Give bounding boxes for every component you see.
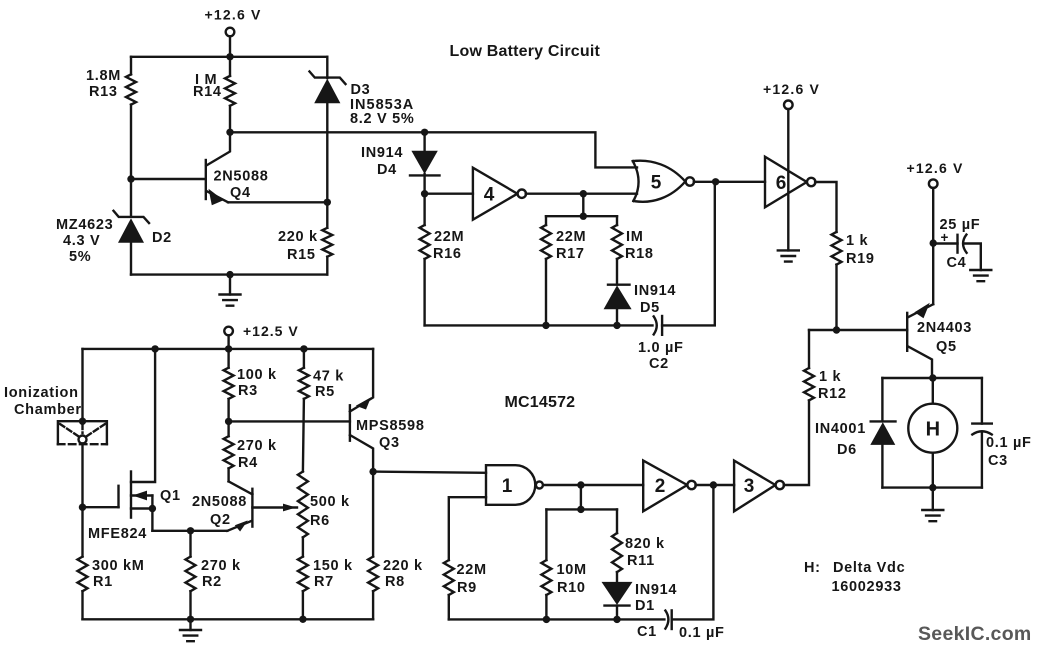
node: rail junction R5 (300, 345, 307, 352)
mosfet Q1 MFE824 (83, 506, 119, 508)
resistor R3 100k (227, 349, 229, 422)
svg-text:22M: 22M (556, 229, 586, 245)
wire: gate6 output to R19 (815, 182, 836, 232)
svg-text:270 k: 270 k (201, 558, 241, 574)
svg-text:Q3: Q3 (379, 435, 400, 451)
svg-text:Delta Vdc: Delta Vdc (833, 560, 905, 576)
ground (gate 6) (778, 250, 799, 261)
svg-text:3: 3 (744, 476, 755, 497)
transistor Q2 2N5088 (251, 489, 253, 527)
capacitor C3 0.1uF (981, 378, 983, 424)
node: R14/collector junction (226, 129, 233, 136)
svg-text:R4: R4 (238, 455, 258, 471)
svg-text:1: 1 (502, 476, 513, 497)
resistor R2 270k (189, 531, 191, 620)
node: Q3 collector junction (369, 468, 376, 475)
wire: R10-R11 tee (546, 508, 617, 510)
wire: branch down (582, 194, 584, 217)
wire: chamber to gate node (81, 444, 83, 508)
wire: bottom rail of Q4 block (131, 273, 327, 275)
svg-text:4: 4 (484, 185, 495, 206)
node: rail junction Q1 drain (151, 345, 158, 352)
node: R2 ground junction (187, 616, 194, 623)
wire: left rail x=131 (130, 57, 132, 217)
inverter U3 (gate 3) (734, 461, 775, 512)
resistor R11 820k (616, 509, 618, 582)
zener diode D2 MZ4623 (130, 223, 132, 275)
node: C1 feedback junction (710, 481, 717, 488)
node: H-box bottom junction (929, 484, 936, 491)
resistor R16 22M (423, 194, 425, 326)
capacitor C1 0.1uF (665, 611, 668, 629)
wire: rail down to chamber (81, 349, 83, 421)
NOR gate U5 (gate 5) (633, 161, 639, 201)
wire: H-box top rail (882, 377, 982, 379)
node: chamber/R1/gate junction (79, 504, 86, 511)
svg-text:10M: 10M (557, 562, 587, 578)
resistor R10 10M (545, 509, 547, 619)
node: emitter/D3/R15 junction (324, 199, 331, 206)
node: D1 bottom junction (613, 616, 620, 623)
svg-text:+12.6 V: +12.6 V (763, 81, 820, 97)
svg-text:R11: R11 (627, 553, 655, 569)
node: Q5 collector junction (929, 374, 936, 381)
node: R7 ground junction (299, 616, 306, 623)
node: D4 top junction (421, 129, 428, 136)
resistor R5 47k (303, 349, 304, 472)
node: top rail junction (226, 53, 233, 60)
svg-text:2N4403: 2N4403 (917, 320, 972, 336)
svg-text:100 k: 100 k (237, 367, 277, 383)
svg-text:C1: C1 (637, 624, 657, 640)
svg-text:R1: R1 (93, 574, 113, 590)
diode D1 IN914 (602, 582, 633, 605)
wire: C2 bottom rail (425, 324, 653, 326)
svg-text:R15: R15 (287, 247, 316, 263)
svg-text:Q2: Q2 (210, 512, 231, 528)
svg-text:+12.6 V: +12.6 V (907, 160, 964, 176)
node: R17 branch junction (580, 190, 587, 197)
resistor R4 270k (227, 421, 229, 481)
inverter U2 (gate 2) (643, 461, 687, 512)
svg-text:R17: R17 (556, 246, 585, 262)
wire: branch down to R10/R11 tee (580, 485, 582, 509)
svg-text:2: 2 (655, 476, 666, 497)
svg-text:R9: R9 (457, 580, 477, 596)
svg-text:D3: D3 (351, 82, 371, 98)
resistor R9 22M (444, 560, 454, 595)
wire: H-box left side (881, 378, 883, 488)
svg-text:220 k: 220 k (278, 229, 318, 245)
svg-text:D1: D1 (635, 598, 655, 614)
svg-text:1.8M: 1.8M (86, 68, 121, 84)
meter H (delta Vdc indicator) (932, 378, 934, 404)
wire: gate1 output to gate2 (544, 484, 644, 486)
wire: gate2 output to gate3 (696, 484, 735, 486)
transistor Q4 2N5088 (205, 160, 207, 199)
resistor R12 1k (804, 368, 814, 400)
svg-text:0.1 µF: 0.1 µF (679, 625, 725, 641)
wire: 8.2V line to NOR upper input (425, 132, 637, 167)
node: R10/R11 tee junction (577, 506, 584, 513)
ground (bottom left) (189, 619, 191, 630)
svg-text:D4: D4 (377, 162, 397, 178)
svg-text:Low Battery Circuit: Low Battery Circuit (450, 43, 601, 60)
resistor R19 1k (832, 232, 842, 265)
transistor Q3 MPS8598 (349, 405, 351, 440)
wire: H-box bottom rail (882, 486, 982, 488)
resistor R18 1M (616, 216, 618, 284)
svg-text:R18: R18 (625, 246, 654, 262)
svg-text:Q1: Q1 (160, 488, 181, 504)
wire: gate4 output to NOR gate 5 (526, 192, 637, 194)
svg-text:H:: H: (804, 560, 821, 576)
svg-text:16002933: 16002933 (832, 579, 902, 595)
resistor R8 220k (372, 472, 374, 620)
svg-text:SeekIC.com: SeekIC.com (918, 623, 1032, 645)
svg-text:1.0 µF: 1.0 µF (638, 340, 684, 356)
wire: C1 bottom rail (449, 618, 665, 620)
svg-text:270 k: 270 k (237, 438, 277, 454)
svg-text:1 k: 1 k (819, 369, 841, 385)
wire: +12.6V top rail (131, 56, 327, 58)
node: R17 bottom junction (542, 322, 549, 329)
node: D4 bottom junction (421, 190, 428, 197)
resistor R7 150k (302, 537, 304, 619)
svg-text:5: 5 (651, 172, 662, 193)
node: R19/R12/base junction (833, 326, 840, 333)
resistor R14 1M (229, 57, 231, 133)
svg-text:C3: C3 (988, 453, 1008, 469)
svg-text:IN914: IN914 (361, 145, 403, 161)
node: ground junction (226, 271, 233, 278)
svg-text:R16: R16 (433, 246, 462, 262)
svg-text:C4: C4 (947, 255, 967, 271)
wire: gate3 output to R12 (784, 400, 809, 485)
node: gate5 output junction (712, 178, 719, 185)
svg-text:MFE824: MFE824 (88, 526, 147, 542)
wire: gate5 output (694, 181, 765, 183)
svg-text:22M: 22M (457, 562, 487, 578)
ground (H box) (932, 488, 934, 510)
svg-text:300 kM: 300 kM (92, 558, 145, 574)
diode D5 IN914 (608, 284, 630, 286)
svg-text:R14: R14 (193, 84, 222, 100)
transistor Q5 2N4403 (906, 313, 908, 351)
svg-text:150 k: 150 k (313, 558, 353, 574)
svg-text:8.2 V 5%: 8.2 V 5% (350, 111, 414, 127)
svg-text:820 k: 820 k (625, 536, 665, 552)
svg-text:MPS8598: MPS8598 (356, 418, 425, 434)
svg-text:R13: R13 (89, 84, 118, 100)
resistor R17 22M (545, 216, 547, 325)
wire: NAND lower input (449, 497, 486, 560)
svg-text:IN914: IN914 (635, 582, 677, 598)
svg-text:D2: D2 (152, 230, 172, 246)
capacitor C2 1.0uF (654, 316, 657, 334)
svg-text:IN4001: IN4001 (815, 421, 866, 437)
svg-text:IM: IM (626, 229, 644, 245)
svg-text:+12.6 V: +12.6 V (205, 7, 262, 23)
svg-text:Q4: Q4 (230, 185, 251, 201)
diode D4 IN914 (423, 132, 425, 193)
svg-text:MZ4623: MZ4623 (56, 217, 113, 233)
wire: R17-R18 top tee (546, 215, 617, 217)
node: rail junction R3 (225, 345, 232, 352)
resistor R15 220k (326, 202, 328, 274)
svg-text:Ionization: Ionization (4, 385, 79, 401)
svg-text:R6: R6 (310, 513, 330, 529)
svg-text:R2: R2 (202, 574, 222, 590)
wire: Q4 emitter rail (228, 201, 327, 203)
svg-text:R5: R5 (315, 384, 335, 400)
wire: +12.5V rail (83, 348, 374, 350)
svg-text:R12: R12 (818, 386, 847, 402)
svg-text:Chamber: Chamber (14, 402, 82, 418)
svg-text:+: + (941, 230, 949, 245)
svg-text:IN914: IN914 (634, 283, 676, 299)
NAND gate U1 (gate 1) (486, 465, 535, 505)
wire: Q1 source to Q2 emitter (152, 530, 227, 532)
svg-text:47 k: 47 k (313, 369, 344, 385)
svg-text:R8: R8 (385, 574, 405, 590)
potentiometer R6 500k (298, 472, 308, 538)
svg-text:5%: 5% (69, 249, 91, 265)
wire: node to D4 (8.2V line) (230, 131, 425, 133)
svg-text:0.1 µF: 0.1 µF (986, 435, 1032, 451)
svg-text:220 k: 220 k (383, 558, 423, 574)
node: R10 bottom junction (543, 616, 550, 623)
svg-text:MC14572: MC14572 (505, 394, 576, 411)
svg-text:2N5088: 2N5088 (214, 169, 269, 185)
node: R2 junction (187, 527, 194, 534)
svg-text:R7: R7 (314, 574, 334, 590)
svg-text:4.3 V: 4.3 V (63, 233, 100, 249)
node: R3/R4/Q3-base junction (225, 418, 232, 425)
svg-text:2N5088: 2N5088 (192, 494, 247, 510)
resistor R13 1.8M (126, 74, 136, 104)
wire: Q3 to NAND input (373, 472, 486, 473)
svg-text:1 k: 1 k (846, 233, 868, 249)
svg-text:Q5: Q5 (936, 339, 957, 355)
power terminal +12.5 V (224, 327, 233, 336)
node: R17/R18 tee (580, 213, 587, 220)
wire: bottom-left ground rail (83, 618, 374, 620)
svg-text:C2: C2 (649, 356, 669, 372)
inverter U6 (gate 6) (765, 157, 807, 208)
node: gate1 output junction (577, 481, 584, 488)
zener diode D3 1N5853A (326, 57, 328, 203)
svg-text:500 k: 500 k (310, 494, 350, 510)
inverter U4 (gate 4) (473, 168, 518, 220)
svg-text:6: 6 (776, 173, 787, 194)
node: D5 bottom junction (613, 322, 620, 329)
svg-text:R19: R19 (846, 251, 875, 267)
wire: base wire to Q3 (229, 420, 350, 422)
ground (C4) (970, 270, 991, 281)
svg-text:H: H (926, 419, 940, 441)
svg-text:R10: R10 (557, 580, 586, 596)
node: base junction on left rail (127, 175, 134, 182)
svg-text:+12.5 V: +12.5 V (243, 323, 299, 339)
svg-text:D6: D6 (837, 442, 857, 458)
node: C4 junction (930, 239, 937, 246)
svg-text:D5: D5 (640, 300, 660, 316)
ionization chamber (dashed box with electrode) (58, 421, 107, 444)
diode D6 IN4001 (871, 420, 896, 422)
svg-text:R3: R3 (238, 383, 258, 399)
wire: D4 to inverter 4 input (425, 192, 473, 194)
resistor R1 300kM (81, 507, 83, 619)
svg-text:22M: 22M (434, 229, 464, 245)
capacitor C4 25uF (933, 242, 957, 244)
ground (Q4 block) (229, 275, 231, 295)
